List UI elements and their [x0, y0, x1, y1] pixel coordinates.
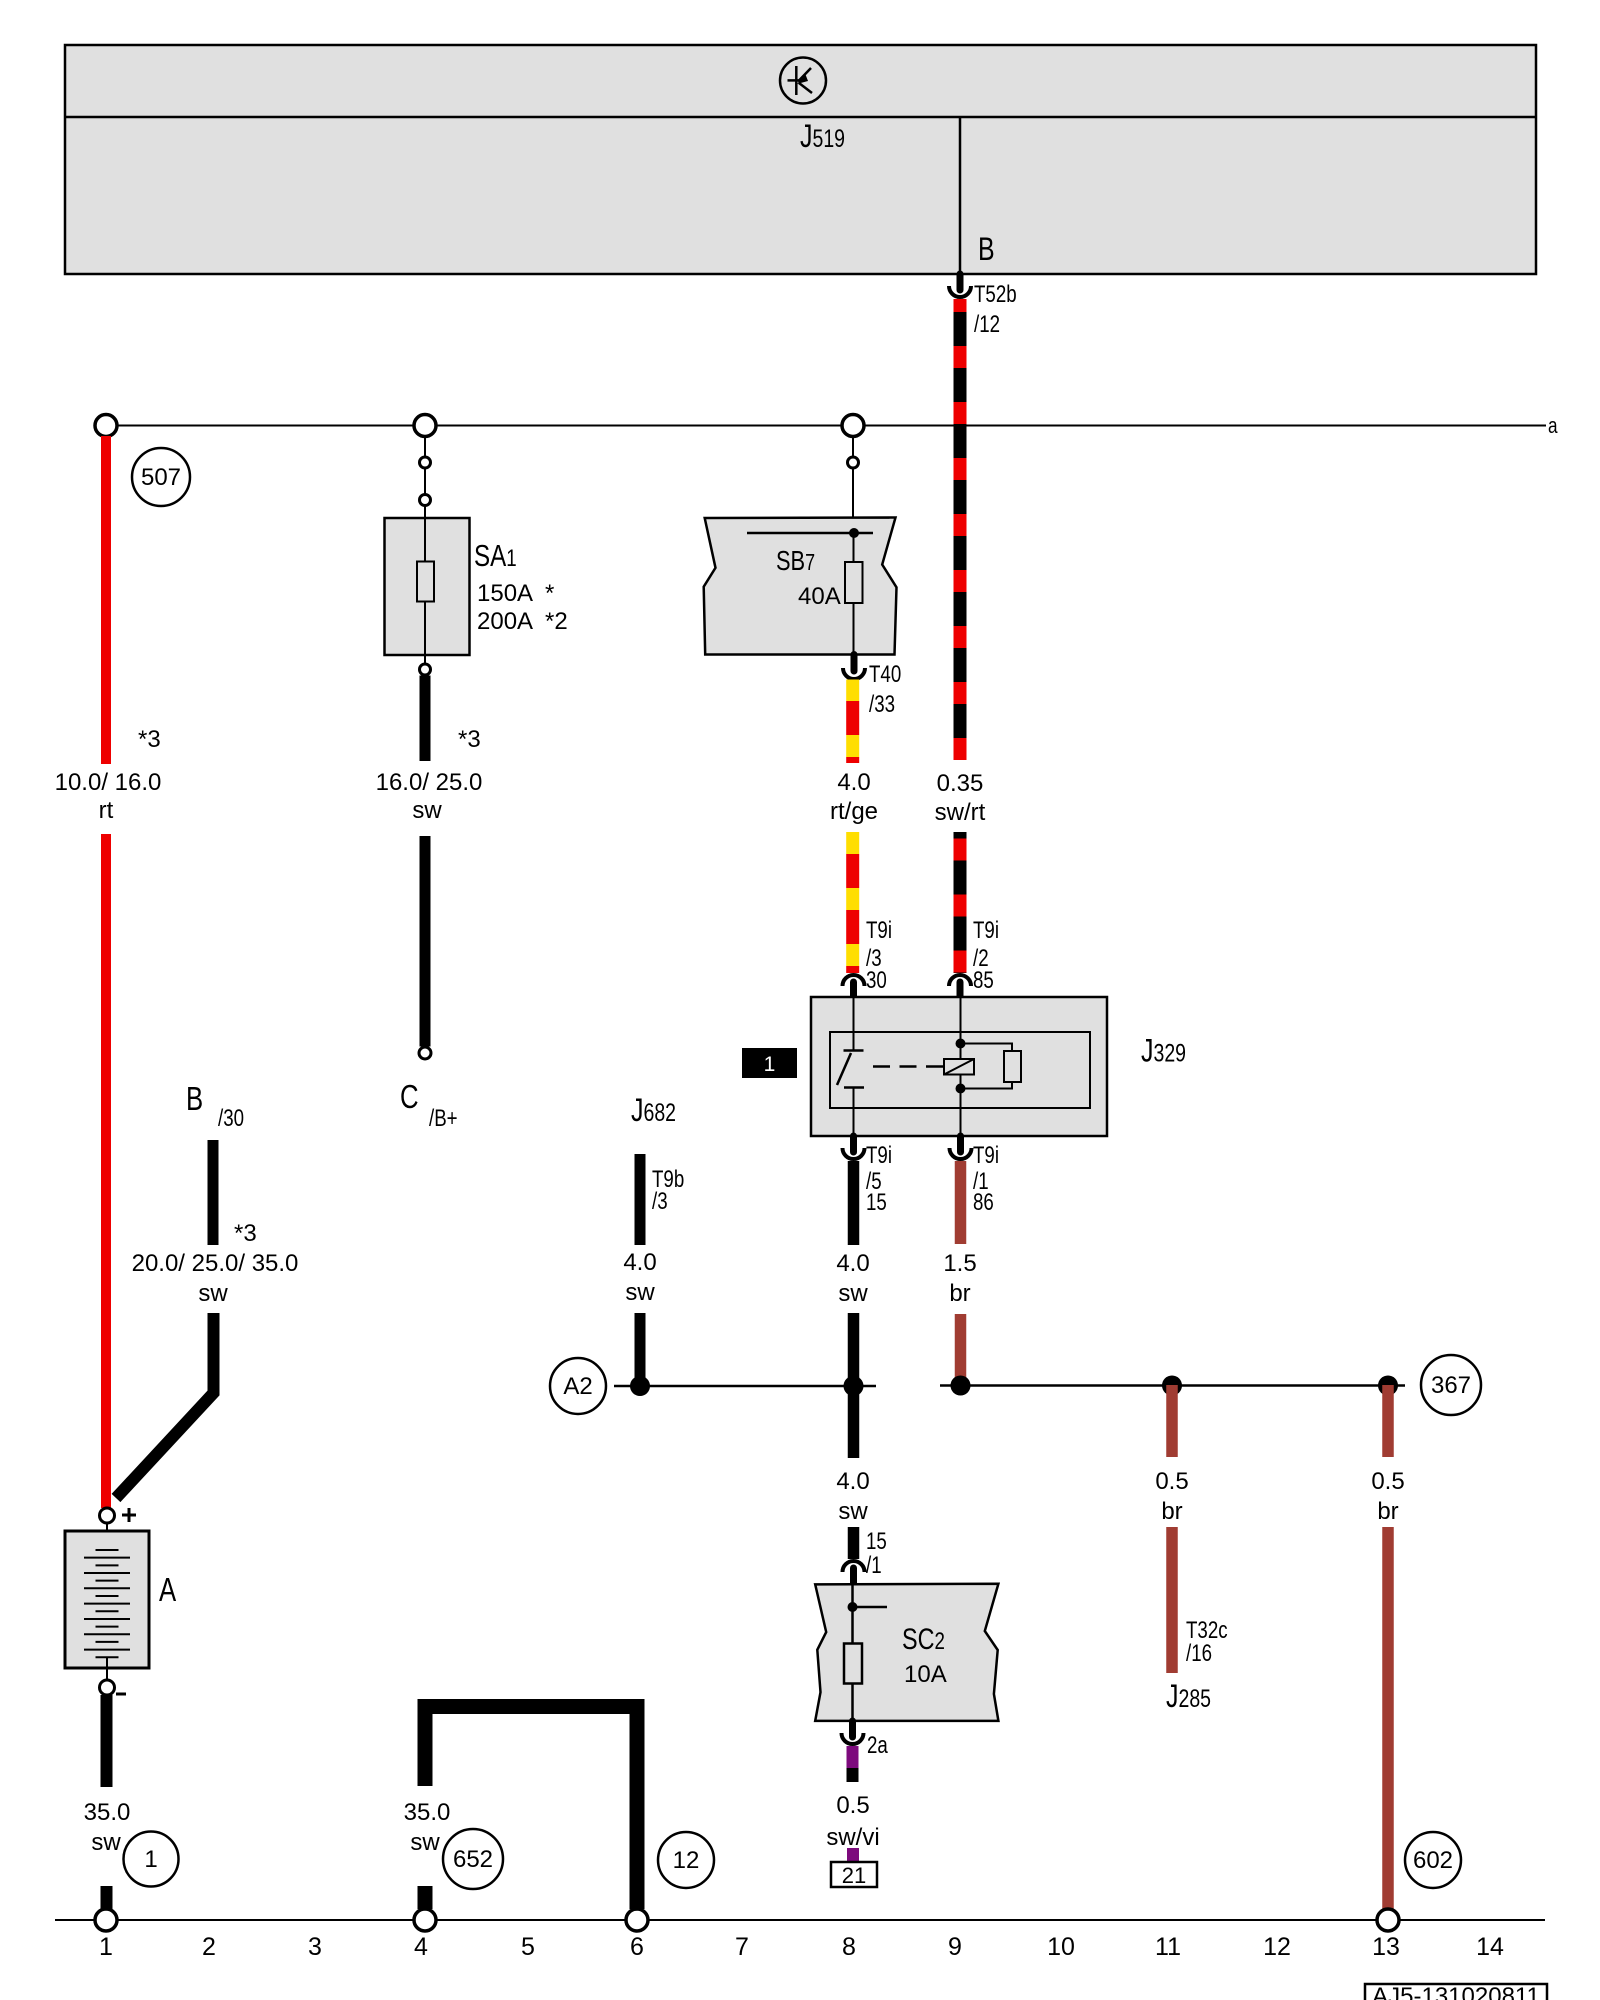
svg-text:652: 652	[453, 1846, 493, 1873]
svg-text:0.5: 0.5	[836, 1792, 869, 1819]
svg-text:/B+: /B+	[429, 1105, 458, 1132]
svg-text:sw: sw	[838, 1280, 868, 1307]
svg-text:13: 13	[1372, 1933, 1400, 1961]
svg-text:*: *	[545, 580, 554, 607]
svg-text:367: 367	[1431, 1372, 1471, 1399]
svg-text:*2: *2	[545, 608, 568, 635]
svg-text:1: 1	[99, 1933, 113, 1961]
svg-text:8: 8	[842, 1933, 856, 1961]
svg-text:35.0: 35.0	[84, 1799, 131, 1826]
svg-text:12: 12	[1263, 1933, 1291, 1961]
svg-text:10A: 10A	[904, 1661, 947, 1688]
svg-text:4.0: 4.0	[836, 1250, 869, 1277]
svg-text:sw/vi: sw/vi	[826, 1824, 879, 1851]
svg-text:T9i: T9i	[866, 1142, 892, 1169]
svg-text:C: C	[400, 1079, 419, 1116]
svg-text:/3: /3	[652, 1188, 668, 1215]
svg-text:86: 86	[973, 1189, 994, 1216]
svg-text:11: 11	[1155, 1933, 1181, 1961]
svg-text:14: 14	[1476, 1933, 1504, 1961]
svg-text:1: 1	[764, 1053, 776, 1076]
svg-text:A2: A2	[563, 1373, 592, 1400]
svg-text:T9i: T9i	[973, 917, 999, 944]
svg-text:sw: sw	[198, 1280, 228, 1307]
svg-text:30: 30	[866, 967, 887, 994]
svg-text:4.0: 4.0	[836, 1468, 869, 1495]
svg-text:J519: J519	[800, 119, 845, 155]
svg-text:J285: J285	[1166, 1679, 1211, 1715]
svg-text:7: 7	[735, 1933, 749, 1961]
svg-text:5: 5	[521, 1933, 535, 1961]
svg-text:/16: /16	[1186, 1640, 1212, 1667]
svg-text:200A: 200A	[477, 608, 533, 635]
svg-text:9: 9	[948, 1933, 962, 1961]
svg-text:1.5: 1.5	[943, 1250, 976, 1277]
svg-text:sw: sw	[410, 1829, 440, 1856]
svg-text:SB7: SB7	[776, 545, 815, 576]
svg-text:3: 3	[308, 1933, 322, 1961]
svg-text:150A: 150A	[477, 580, 533, 607]
svg-text:T52b: T52b	[974, 281, 1017, 308]
svg-text:B: B	[186, 1081, 203, 1118]
svg-text:16.0/ 25.0: 16.0/ 25.0	[376, 769, 483, 796]
svg-text:40A: 40A	[798, 583, 841, 610]
svg-text:1: 1	[144, 1846, 157, 1873]
svg-text:12: 12	[673, 1847, 700, 1874]
svg-text:sw: sw	[838, 1498, 868, 1525]
svg-text:/30: /30	[218, 1105, 244, 1132]
svg-text:br: br	[1377, 1498, 1398, 1525]
svg-text:sw: sw	[91, 1829, 121, 1856]
svg-text:sw/rt: sw/rt	[935, 799, 986, 826]
svg-text:T9i: T9i	[866, 917, 892, 944]
svg-text:15: 15	[866, 1528, 887, 1555]
svg-text:a: a	[1548, 414, 1558, 439]
svg-text:br: br	[1161, 1498, 1182, 1525]
svg-text:SC2: SC2	[902, 1622, 945, 1655]
svg-text:2: 2	[202, 1933, 216, 1961]
svg-text:B: B	[978, 232, 995, 268]
svg-text:20.0/ 25.0/ 35.0: 20.0/ 25.0/ 35.0	[132, 1250, 299, 1277]
svg-text:21: 21	[842, 1863, 866, 1888]
svg-text:0.5: 0.5	[1371, 1468, 1404, 1495]
svg-text:602: 602	[1413, 1847, 1453, 1874]
svg-text:10: 10	[1047, 1933, 1075, 1961]
svg-text:T9i: T9i	[973, 1142, 999, 1169]
svg-text:0.5: 0.5	[1155, 1468, 1188, 1495]
svg-text:J329: J329	[1141, 1034, 1186, 1070]
svg-text:4.0: 4.0	[837, 769, 870, 796]
svg-text:AJ5-131020811: AJ5-131020811	[1372, 1983, 1540, 2000]
svg-text:*3: *3	[458, 726, 481, 753]
svg-text:2a: 2a	[867, 1732, 888, 1759]
svg-text:507: 507	[141, 464, 181, 491]
svg-text:/1: /1	[866, 1552, 882, 1579]
svg-text:*3: *3	[234, 1220, 257, 1247]
svg-text:15: 15	[866, 1189, 887, 1216]
svg-text:T40: T40	[869, 661, 901, 688]
svg-text:6: 6	[630, 1933, 644, 1961]
svg-text:rt: rt	[99, 797, 114, 824]
svg-text:4: 4	[414, 1933, 428, 1961]
svg-text:/33: /33	[869, 691, 895, 718]
svg-text:10.0/ 16.0: 10.0/ 16.0	[55, 769, 162, 796]
svg-text:J682: J682	[631, 1093, 676, 1129]
svg-text:br: br	[949, 1280, 970, 1307]
svg-text:0.35: 0.35	[937, 770, 984, 797]
svg-text:A: A	[159, 1572, 176, 1609]
svg-text:sw: sw	[625, 1279, 655, 1306]
svg-text:/12: /12	[974, 311, 1000, 338]
svg-text:rt/ge: rt/ge	[830, 798, 878, 825]
svg-text:*3: *3	[138, 726, 161, 753]
svg-text:35.0: 35.0	[404, 1799, 451, 1826]
svg-text:4.0: 4.0	[623, 1249, 656, 1276]
svg-text:85: 85	[973, 967, 994, 994]
svg-text:sw: sw	[412, 797, 442, 824]
